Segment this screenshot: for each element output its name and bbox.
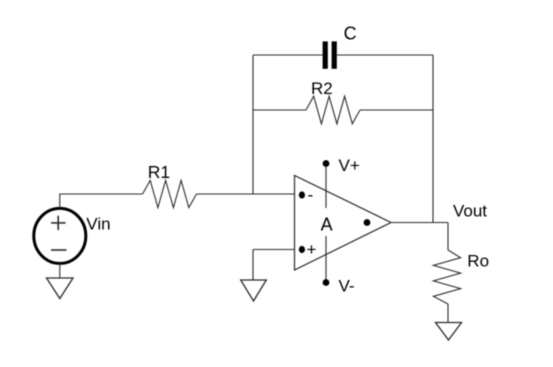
svg-text:V-: V- — [339, 277, 355, 296]
ground below Ro — [436, 323, 462, 341]
wire top feedback left segment — [253, 54, 323, 56]
svg-text:Vin: Vin — [86, 215, 110, 234]
wire R1 to inverting input — [197, 193, 295, 195]
resistor Ro — [433, 250, 460, 304]
op-amp A triangle — [295, 176, 392, 271]
svg-text:-: - — [308, 186, 314, 205]
op-amp V- supply line — [325, 236, 327, 283]
svg-text:Vout: Vout — [453, 202, 487, 221]
pin dot output — [364, 219, 371, 226]
ground noninverting input — [241, 280, 267, 301]
pin dot V- — [323, 279, 330, 286]
op-amp V+ supply line — [325, 164, 327, 209]
wire Vin top to input line — [60, 194, 143, 209]
wire Vin bottom to ground — [59, 263, 61, 278]
svg-text:C: C — [344, 23, 357, 43]
wire feedback right vertical — [432, 55, 434, 223]
resistor R2 — [306, 96, 360, 124]
wire feedback left vertical — [252, 55, 254, 194]
wire top feedback right segment — [337, 54, 433, 56]
resistor R1 — [143, 180, 197, 207]
pin dot inverting input — [299, 191, 305, 198]
wire Ro to ground — [447, 304, 449, 323]
pin dot noninverting input — [299, 246, 305, 253]
svg-text:R2: R2 — [311, 79, 333, 98]
wire noninverting to ground — [252, 250, 254, 281]
pin dot V+ — [323, 160, 330, 167]
wire output to Vout node — [391, 222, 448, 224]
svg-text:Ro: Ro — [467, 252, 489, 271]
wire R2 branch right segment — [360, 109, 433, 111]
svg-text:+: + — [307, 240, 317, 259]
capacitor C — [323, 41, 337, 68]
svg-text:A: A — [321, 214, 333, 234]
svg-text:V+: V+ — [339, 156, 360, 175]
voltage source Vin — [34, 208, 86, 263]
ground below Vin — [47, 278, 74, 299]
wire Vout node down to Ro — [447, 223, 449, 251]
wire noninverting input — [253, 249, 295, 251]
wire R2 branch left segment — [253, 109, 306, 111]
svg-text:R1: R1 — [148, 162, 170, 182]
